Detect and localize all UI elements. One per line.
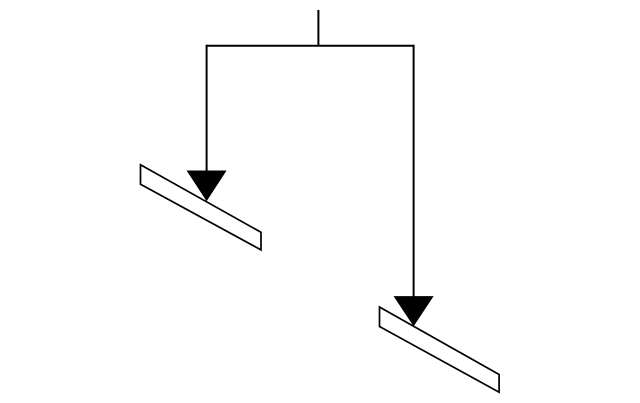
arrowhead: left solid triangle bbox=[188, 171, 226, 200]
plate: left slanted parallelogram bbox=[141, 165, 262, 250]
arrowhead: right solid triangle bbox=[395, 297, 433, 326]
plate: right slanted parallelogram bbox=[380, 307, 500, 392]
wire: right vertical drop bbox=[413, 45, 415, 298]
wire: top vertical stub bbox=[317, 10, 319, 46]
wire: horizontal branch bar bbox=[207, 45, 414, 47]
wire: left vertical drop bbox=[206, 45, 208, 172]
